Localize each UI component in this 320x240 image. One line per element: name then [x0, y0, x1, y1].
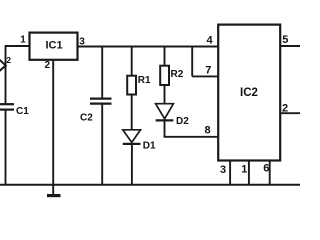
svg-text:C2: C2: [80, 113, 93, 124]
svg-text:2: 2: [282, 103, 288, 115]
svg-text:1: 1: [20, 34, 26, 45]
svg-text:R1: R1: [138, 75, 151, 86]
svg-text:6: 6: [263, 163, 269, 175]
svg-text:1: 1: [241, 164, 247, 176]
svg-text:2: 2: [6, 55, 11, 65]
svg-text:C1: C1: [16, 106, 29, 117]
svg-text:R2: R2: [171, 69, 184, 80]
svg-text:D1: D1: [143, 141, 156, 152]
svg-text:IC1: IC1: [45, 40, 62, 52]
svg-text:7: 7: [205, 64, 211, 76]
svg-text:2: 2: [45, 60, 51, 71]
svg-text:8: 8: [205, 124, 211, 136]
svg-text:D2: D2: [176, 116, 189, 127]
svg-text:5: 5: [282, 34, 288, 46]
svg-text:3: 3: [79, 36, 85, 47]
svg-text:3: 3: [220, 164, 226, 176]
svg-text:IC2: IC2: [240, 87, 258, 99]
svg-text:4: 4: [207, 34, 214, 46]
